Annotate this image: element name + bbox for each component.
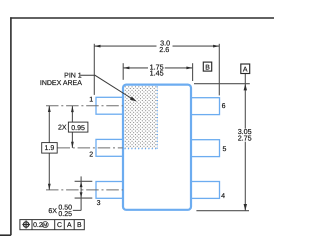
dimension 3.05/2.75 arrow up <box>244 84 247 91</box>
dimension 3.0/2.6 arrow right <box>213 45 219 48</box>
dimension 0.50/0.25 line <box>80 176 82 210</box>
dimension 3.05/2.75 line <box>244 74 246 211</box>
pin 4 pad <box>191 182 220 199</box>
dimension 0.50/0.25 extension line top <box>75 180 93 182</box>
svg-text:1: 1 <box>89 97 93 104</box>
svg-text:0.2: 0.2 <box>33 222 43 229</box>
svg-text:A: A <box>67 222 72 229</box>
svg-text:1.45: 1.45 <box>150 68 164 77</box>
svg-text:C: C <box>57 222 62 229</box>
dimension 2X 0.95 arrow up <box>71 106 74 112</box>
border frame top <box>10 17 274 19</box>
svg-text:PIN 1: PIN 1 <box>64 73 82 80</box>
svg-text:2.6: 2.6 <box>159 45 169 54</box>
pin 2 centerline <box>58 147 123 149</box>
dimension 1.75/1.45 extension line left <box>122 63 124 80</box>
border frame left <box>10 17 12 235</box>
dimension 1.75/1.45 arrow left <box>123 67 129 70</box>
dimension 3.0/2.6 line <box>94 45 219 47</box>
svg-text:0.25: 0.25 <box>58 211 72 218</box>
pin 3 centerline <box>46 189 123 191</box>
dimension 1.9 arrow down <box>48 184 51 190</box>
pin 6 pad <box>191 98 220 115</box>
svg-text:1.9: 1.9 <box>45 145 55 152</box>
svg-text:2: 2 <box>89 151 93 158</box>
svg-text:M: M <box>43 222 47 228</box>
dimension 3.05/2.75 extension line top <box>194 83 250 85</box>
dimension 0.50/0.25 arrow up <box>80 182 83 188</box>
svg-text:3: 3 <box>97 200 101 207</box>
svg-text:5: 5 <box>223 146 227 153</box>
dimension 2X 0.95 arrow down <box>71 142 74 148</box>
pin 1 centerline <box>46 105 123 107</box>
package body <box>123 85 191 210</box>
dimension 3.05/2.75 arrow down <box>244 204 247 211</box>
pin 3 pad <box>96 182 123 199</box>
svg-text:INDEX AREA: INDEX AREA <box>40 80 82 87</box>
svg-text:B: B <box>205 64 210 71</box>
dimension 1.75/1.45 extension line right <box>192 63 194 81</box>
datum A box <box>241 64 250 74</box>
position symbol <box>22 221 30 229</box>
pin 1 index area dotted bottom edge <box>125 148 158 150</box>
dimension 3.0/2.6 text <box>157 38 173 54</box>
border frame bottom-left stub <box>0 234 11 236</box>
dimension 0.50/0.25 leader bracket <box>73 209 81 211</box>
dimension 0.50/0.25 arrow down <box>80 192 83 198</box>
pin 1 index area dotted right edge <box>156 86 158 148</box>
pin 1 index area stipple <box>124 86 157 149</box>
modifier M circle <box>42 222 48 229</box>
dimension 1.75/1.45 text <box>148 62 165 77</box>
dimension 0.50/0.25 extension line bottom <box>75 197 93 199</box>
dimension 3.0/2.6 arrow left <box>94 45 100 48</box>
pin 1 pad <box>96 97 123 114</box>
dimension 1.9 arrow up <box>48 106 51 112</box>
svg-text:2X: 2X <box>58 125 67 132</box>
pin 2 pad <box>96 139 123 156</box>
dimension 1.75/1.45 arrow right <box>186 67 192 70</box>
dimension 3.0/2.6 extension line left <box>93 44 95 95</box>
dimension 2X 0.95 boxed value <box>68 122 88 132</box>
dimension 1.9 line <box>48 106 50 190</box>
pin 1 index leader arrowhead <box>130 97 137 102</box>
svg-text:4: 4 <box>221 193 225 200</box>
datum B box <box>203 62 211 71</box>
dimension 3.05/2.75 text <box>237 127 253 142</box>
dimension 2X 0.95 line <box>71 106 73 148</box>
feature control frame <box>20 220 84 230</box>
svg-text:6X: 6X <box>48 208 57 215</box>
svg-text:A: A <box>243 67 248 74</box>
pin 5 pad <box>191 140 220 157</box>
dimension 3.05/2.75 extension line bottom <box>196 210 249 212</box>
pin 1 index leader <box>81 75 133 98</box>
svg-text:6: 6 <box>222 103 226 110</box>
svg-text:B: B <box>77 222 82 229</box>
dimension 1.9 boxed value <box>42 143 58 154</box>
svg-text:0.95: 0.95 <box>71 125 85 132</box>
dimension 3.0/2.6 extension line right <box>218 44 220 96</box>
dimension 1.75/1.45 line <box>123 67 192 69</box>
svg-text:2.75: 2.75 <box>238 134 252 143</box>
